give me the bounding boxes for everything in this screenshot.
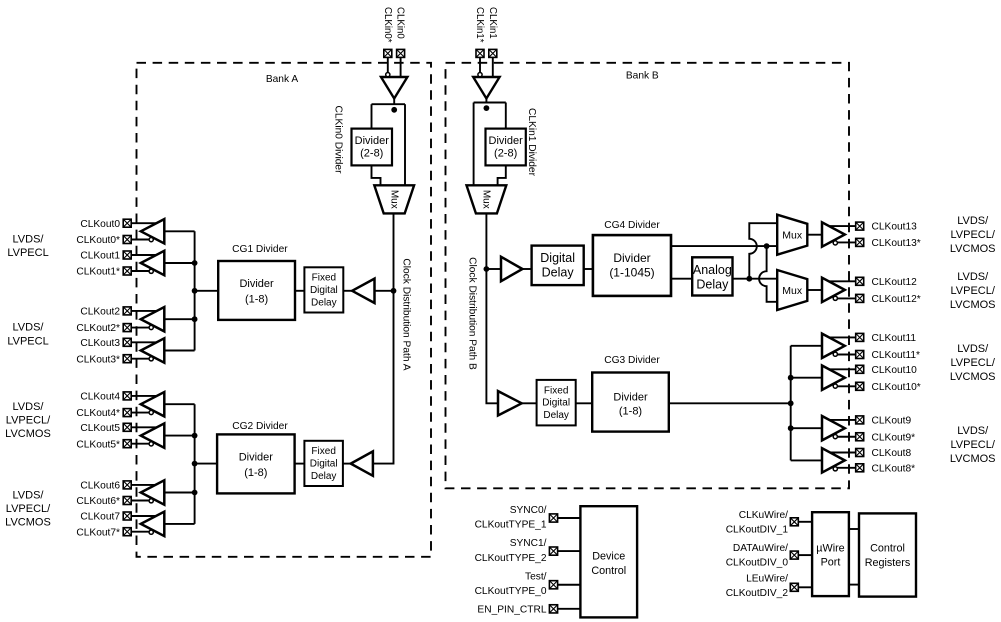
wire buffer to pin CLKout8* bbox=[835, 467, 855, 469]
wire bus Bank A CG2 outputs bbox=[194, 404, 196, 524]
wire pin CLKout0 to buffer bbox=[132, 222, 159, 224]
svg-text:CLKout0: CLKout0 bbox=[80, 219, 120, 230]
wire analog delay to muxes bbox=[733, 278, 778, 280]
pin CLKout5* bbox=[123, 440, 131, 448]
svg-text:CLKin0: CLKin0 bbox=[395, 7, 406, 39]
svg-text:Fixed: Fixed bbox=[312, 273, 336, 284]
inversion bubble CLKout6* bbox=[149, 499, 153, 503]
wire buffer to pin CLKout12* bbox=[835, 297, 855, 299]
pin CLKin1 bbox=[489, 49, 497, 57]
wire pin CLKout0* to buffer bbox=[132, 239, 152, 241]
svg-text:CLKout4*: CLKout4* bbox=[76, 408, 120, 419]
svg-text:LVDS/: LVDS/ bbox=[957, 343, 989, 355]
wire CLKin0* pin to buffer bubble bbox=[387, 58, 389, 73]
wire CG3 FDD to divider bbox=[576, 402, 593, 404]
svg-text:Mux: Mux bbox=[782, 285, 803, 297]
wire CLKin1 direct branch bbox=[473, 103, 475, 186]
inversion bubble CLKout13* bbox=[833, 241, 837, 245]
Device Control box bbox=[580, 506, 637, 617]
output buffer CLKout4/4* bbox=[141, 392, 165, 416]
pin CLKout3* bbox=[123, 355, 131, 363]
pin CLKout11 bbox=[856, 333, 864, 341]
svg-text:Delay: Delay bbox=[542, 265, 575, 279]
pin CLKout11* bbox=[856, 351, 864, 359]
svg-text:LVDS/: LVDS/ bbox=[957, 215, 989, 227]
pin CLKout13 bbox=[856, 222, 864, 230]
wire CLKin1 divider branch bbox=[505, 103, 507, 129]
svg-text:Delay: Delay bbox=[696, 278, 729, 292]
pin CLKin1* bbox=[476, 49, 484, 57]
svg-text:CLKout3*: CLKout3* bbox=[76, 354, 120, 365]
wire CLKin1 divider to mux bbox=[498, 165, 506, 186]
mux CLKin0 bbox=[374, 185, 414, 213]
svg-text:CLKin0 Divider: CLKin0 Divider bbox=[333, 106, 344, 175]
pin CLKout4* bbox=[123, 409, 131, 417]
inversion bubble CLKout10* bbox=[833, 384, 837, 388]
inversion bubble CLKout4* bbox=[149, 410, 153, 414]
inversion bubble CLKout8* bbox=[833, 467, 837, 471]
pin CLKout5 bbox=[123, 423, 131, 431]
input buffer CLKin0 bbox=[381, 77, 407, 99]
svg-text:CLKout10: CLKout10 bbox=[872, 365, 918, 376]
svg-text:Divider: Divider bbox=[613, 391, 648, 403]
svg-text:(1-8): (1-8) bbox=[245, 293, 268, 305]
svg-text:LVPECL/: LVPECL/ bbox=[6, 503, 51, 515]
wire CG3 divider output to bus bbox=[669, 402, 791, 404]
wire buffer input from bus y=523.9 bbox=[164, 523, 194, 525]
wire CG2 divider output to bus bbox=[195, 463, 218, 465]
wire CG1 tap from Path A bbox=[375, 290, 394, 292]
wire direct signal jumper to lower mux (hop over delayed line) bbox=[759, 246, 777, 302]
svg-text:LVPECL/: LVPECL/ bbox=[6, 415, 51, 427]
svg-text:Digital: Digital bbox=[310, 459, 338, 470]
svg-text:CLKout2*: CLKout2* bbox=[76, 323, 120, 334]
svg-text:LVCMOS: LVCMOS bbox=[950, 299, 996, 311]
output buffer CLKout0/0* bbox=[141, 219, 165, 243]
svg-text:CLKout1*: CLKout1* bbox=[76, 267, 120, 278]
svg-text:CLKout8: CLKout8 bbox=[872, 448, 912, 459]
Bank A dashed boundary bbox=[137, 63, 432, 557]
wire pin CLKout2* to buffer bbox=[132, 327, 152, 329]
junction bus/buffer CLKout6 bbox=[192, 490, 198, 496]
svg-text:Divider: Divider bbox=[239, 451, 274, 463]
wire CG4 digital delay to divider bbox=[584, 268, 593, 270]
junction CLKin0 split bbox=[391, 107, 397, 113]
Bank B dashed boundary bbox=[446, 63, 850, 489]
svg-text:SYNC1/: SYNC1/ bbox=[510, 538, 547, 549]
CG1 fixed digital delay box bbox=[304, 267, 343, 312]
wire buffer input from bus y=231.3 bbox=[164, 230, 194, 232]
wire bus to buffer CLKout11 bbox=[791, 345, 822, 347]
pin CLKout1 bbox=[123, 251, 131, 259]
svg-text:LVPECL/: LVPECL/ bbox=[950, 285, 995, 297]
wire buffer input from bus y=350.5 bbox=[164, 350, 194, 352]
pin SYNC1/CLKoutTYPE_2 bbox=[549, 547, 557, 555]
CG4 input buffer bbox=[501, 257, 522, 281]
svg-text:CLKoutTYPE_2: CLKoutTYPE_2 bbox=[475, 553, 547, 564]
svg-text:Device: Device bbox=[592, 550, 625, 562]
wire CG2 buffer to FDD bbox=[343, 463, 351, 465]
pin LEuWire/CLKoutDIV_2 bbox=[790, 583, 798, 591]
pin CLKin0* bbox=[384, 49, 392, 57]
divider (2-8) box CLKin1 bbox=[486, 129, 526, 166]
svg-text:Test/: Test/ bbox=[525, 571, 547, 582]
output buffer CLKout1/1* bbox=[141, 251, 165, 275]
output buffer CLKout6/6* bbox=[141, 480, 165, 504]
svg-text:Mux: Mux bbox=[388, 190, 399, 209]
pin CLKout12 bbox=[856, 277, 864, 285]
svg-text:Clock Distribution Path B: Clock Distribution Path B bbox=[467, 257, 478, 370]
wire pin CLKout2 to buffer bbox=[132, 310, 159, 312]
wire pin CLKout1 to buffer bbox=[132, 254, 159, 256]
CG1 divider box bbox=[218, 261, 295, 320]
svg-text:LVPECL: LVPECL bbox=[7, 335, 48, 347]
svg-text:EN_PIN_CTRL: EN_PIN_CTRL bbox=[477, 604, 546, 615]
wire buffer to pin CLKout10* bbox=[835, 385, 855, 387]
junction Path B / CG4 bbox=[484, 266, 490, 272]
svg-text:Analog: Analog bbox=[693, 263, 732, 277]
output buffer CLKout10/CLKout10* bbox=[822, 366, 845, 390]
svg-text:Digital: Digital bbox=[540, 251, 575, 265]
junction bus/buffer CLKout10 bbox=[788, 375, 794, 381]
pin CLKout2 bbox=[123, 307, 131, 315]
svg-text:LVDS/: LVDS/ bbox=[957, 271, 989, 283]
svg-text:Delay: Delay bbox=[311, 298, 337, 309]
svg-text:CLKout9*: CLKout9* bbox=[872, 432, 916, 443]
svg-text:CLKoutDIV_1: CLKoutDIV_1 bbox=[726, 525, 789, 536]
mux CLKin1 bbox=[467, 185, 507, 213]
svg-text:Registers: Registers bbox=[865, 557, 911, 569]
wire buffer input from bus y=435.6 bbox=[164, 435, 194, 437]
inversion bubble CLKout12* bbox=[833, 296, 837, 300]
svg-text:CLKout11: CLKout11 bbox=[872, 333, 917, 344]
junction bus/CG1 divider line bbox=[192, 288, 198, 294]
CG2 divider box bbox=[217, 434, 295, 493]
wire Clock Distribution Path A bbox=[373, 213, 394, 463]
wire pin CLKout6 to buffer bbox=[132, 484, 159, 486]
pin CLKout7* bbox=[123, 528, 131, 536]
pin CLKout7 bbox=[123, 512, 131, 520]
pin DATAuWire/CLKoutDIV_0 bbox=[790, 551, 798, 559]
svg-text:(2-8): (2-8) bbox=[360, 148, 383, 160]
svg-text:LVDS/: LVDS/ bbox=[13, 490, 45, 502]
svg-text:CG2 Divider: CG2 Divider bbox=[232, 421, 288, 432]
svg-text:CLKout2: CLKout2 bbox=[80, 306, 120, 317]
junction bus/CG3 line bbox=[788, 400, 794, 406]
mux CLKout13 bbox=[777, 215, 807, 255]
wire CLKin0 pin to buffer bbox=[400, 58, 402, 77]
svg-text:CLKout11*: CLKout11* bbox=[872, 350, 921, 361]
svg-text:Mux: Mux bbox=[481, 190, 492, 209]
svg-text:CLKout12: CLKout12 bbox=[872, 277, 918, 288]
svg-text:Delay: Delay bbox=[311, 471, 337, 482]
analog delay box bbox=[692, 257, 732, 295]
wire buffer input from bus y=404.2 bbox=[164, 403, 194, 405]
divider (2-8) box CLKin0 bbox=[352, 129, 393, 166]
wire pin SYNC1/ to Device Control bbox=[558, 550, 581, 552]
svg-text:CLKin1: CLKin1 bbox=[487, 7, 498, 39]
svg-text:CLKin0*: CLKin0* bbox=[382, 7, 393, 43]
wire CG4 tap from Path B bbox=[486, 268, 501, 270]
wire pin CLKout3* to buffer bbox=[132, 358, 152, 360]
svg-text:LVDS/: LVDS/ bbox=[13, 401, 45, 413]
svg-text:Fixed: Fixed bbox=[311, 446, 335, 457]
wire pin CLKout1* to buffer bbox=[132, 270, 152, 272]
junction Path A / CG1 bbox=[391, 288, 397, 294]
wire buffer to pin CLKout10 bbox=[828, 368, 856, 370]
wire buffer CLKin1 output bbox=[485, 99, 487, 103]
pin Test/CLKoutTYPE_0 bbox=[549, 581, 557, 589]
wire lower mux to buffer CLKout12 bbox=[807, 289, 822, 291]
svg-text:LVDS/: LVDS/ bbox=[957, 425, 989, 437]
wire pin CLKout7 to buffer bbox=[132, 515, 159, 517]
svg-text:CLKoutDIV_2: CLKoutDIV_2 bbox=[726, 588, 789, 599]
inversion bubble on CLKin1* input bbox=[478, 73, 482, 77]
svg-text:CLKout0*: CLKout0* bbox=[76, 235, 120, 246]
svg-text:CLKout6*: CLKout6* bbox=[76, 496, 120, 507]
junction bus/buffer CLKout9 bbox=[788, 425, 794, 431]
wire buffer CLKin0 output bbox=[393, 99, 395, 105]
svg-text:LVPECL: LVPECL bbox=[7, 247, 48, 259]
mux CLKout12 bbox=[777, 270, 807, 310]
pin CLKin0 bbox=[397, 49, 405, 57]
output buffer CLKout11/CLKout11* bbox=[822, 334, 845, 358]
pin CLKout4 bbox=[123, 392, 131, 400]
wire bus Bank A CG1 outputs bbox=[194, 231, 196, 350]
inversion bubble CLKout11* bbox=[833, 352, 837, 356]
wire CLKin0 direct branch bbox=[404, 104, 406, 185]
CG3 divider box bbox=[592, 373, 669, 432]
wire buffer to pin CLKout13 bbox=[828, 225, 856, 227]
inversion bubble CLKout2* bbox=[149, 325, 153, 329]
junction direct output split bbox=[764, 243, 770, 249]
wire CLKin0 divider branch bbox=[371, 104, 373, 128]
junction bus/buffer CLKout2 bbox=[192, 316, 198, 322]
wire buffer input from bus y=319.2 bbox=[164, 318, 194, 320]
wire pin Test/ to Device Control bbox=[558, 584, 581, 586]
svg-text:LVCMOS: LVCMOS bbox=[5, 517, 51, 529]
CG3 fixed digital delay box bbox=[537, 380, 576, 426]
pin CLKout2* bbox=[123, 324, 131, 332]
svg-text:Digital: Digital bbox=[542, 398, 570, 409]
wire uWire Port to Control Registers lower bbox=[849, 584, 859, 586]
wire buffer to pin CLKout12 bbox=[828, 280, 856, 282]
svg-text:Bank A: Bank A bbox=[266, 74, 298, 85]
wire CG2 FDD to divider bbox=[295, 463, 305, 465]
svg-text:CLKout7: CLKout7 bbox=[80, 512, 120, 523]
output buffer CLKout5/5* bbox=[141, 423, 165, 447]
svg-text:CLKout13: CLKout13 bbox=[872, 222, 918, 233]
svg-text:Divider: Divider bbox=[613, 251, 650, 265]
wire buffer to pin CLKout13* bbox=[835, 241, 855, 243]
wire pin CLKout5 to buffer bbox=[132, 426, 159, 428]
junction delayed output split bbox=[746, 276, 752, 282]
wire buffer input from bus y=263.0 bbox=[164, 262, 194, 264]
svg-text:Fixed: Fixed bbox=[544, 385, 568, 396]
wire CG4 buffer to digital delay bbox=[522, 268, 531, 270]
pin CLKout13* bbox=[856, 238, 864, 246]
output buffer CLKout7/7* bbox=[141, 512, 165, 536]
inversion bubble CLKout3* bbox=[149, 357, 153, 361]
svg-text:LVCMOS: LVCMOS bbox=[950, 243, 996, 255]
inversion bubble CLKout5* bbox=[149, 442, 153, 446]
wire pin LEuWire/ to uWire Port bbox=[798, 586, 812, 588]
wire CG1 buffer to FDD bbox=[343, 290, 352, 292]
wire CLKin1* pin to buffer bubble bbox=[479, 58, 481, 73]
wire pin CLKout6* to buffer bbox=[132, 500, 152, 502]
svg-text:CG4 Divider: CG4 Divider bbox=[604, 220, 660, 231]
wire Clock Distribution Path B bbox=[486, 213, 498, 403]
wire CG3 buffer to FDD bbox=[522, 402, 537, 404]
pin CLKuWire/CLKoutDIV_1 bbox=[790, 518, 798, 526]
svg-text:Divider: Divider bbox=[355, 135, 390, 147]
output buffer CLKout3/3* bbox=[141, 338, 165, 362]
CG3 input buffer bbox=[498, 391, 522, 415]
wire bus CG3 outputs bbox=[790, 346, 792, 461]
CG4 digital delay box bbox=[532, 246, 584, 286]
svg-text:LVDS/: LVDS/ bbox=[13, 233, 45, 245]
wire bus to buffer CLKout10 bbox=[791, 377, 822, 379]
svg-text:Control: Control bbox=[591, 565, 626, 577]
svg-text:CLKoutDIV_0: CLKoutDIV_0 bbox=[726, 557, 789, 568]
svg-text:CLKout5: CLKout5 bbox=[80, 423, 120, 434]
wire pin CLKout4* to buffer bbox=[132, 412, 152, 414]
svg-text:(1-1045): (1-1045) bbox=[609, 265, 654, 279]
svg-text:Divider: Divider bbox=[239, 278, 274, 290]
uWire Port box bbox=[812, 512, 849, 596]
pin CLKout9* bbox=[856, 433, 864, 441]
svg-text:CLKout8*: CLKout8* bbox=[872, 463, 916, 474]
junction bus/buffer CLKout1 bbox=[192, 260, 198, 266]
wire pin DATAuWire/ to uWire Port bbox=[798, 554, 812, 556]
inversion bubble CLKout1* bbox=[149, 269, 153, 273]
svg-text:CLKout5*: CLKout5* bbox=[76, 439, 120, 450]
svg-text:LVPECL/: LVPECL/ bbox=[950, 357, 995, 369]
wire CG1 FDD to divider bbox=[295, 290, 304, 292]
wire buffer input from bus y=492.5 bbox=[164, 492, 194, 494]
svg-text:Divider: Divider bbox=[489, 135, 524, 147]
svg-text:DATAuWire/: DATAuWire/ bbox=[733, 543, 788, 554]
wire pin SYNC0/ to Device Control bbox=[558, 517, 581, 519]
svg-text:CLKout7*: CLKout7* bbox=[76, 527, 120, 538]
wire bus to buffer CLKout9 bbox=[791, 427, 822, 429]
input buffer CLKin1 bbox=[473, 77, 499, 99]
svg-text:Clock Distribution Path A: Clock Distribution Path A bbox=[401, 258, 412, 370]
wire buffer to pin CLKout8 bbox=[828, 452, 856, 454]
wire delayed signal jumper to upper mux (hop over direct line) bbox=[749, 223, 777, 279]
pin CLKout8 bbox=[856, 449, 864, 457]
pin EN_PIN_CTRL bbox=[549, 605, 557, 613]
svg-text:CLKin1*: CLKin1* bbox=[474, 7, 485, 43]
wire pin CLKuWire/ to uWire Port bbox=[798, 521, 812, 523]
wire upper mux to buffer CLKout13 bbox=[807, 234, 822, 236]
svg-text:LVDS/: LVDS/ bbox=[13, 322, 45, 334]
svg-text:SYNC0/: SYNC0/ bbox=[510, 505, 547, 516]
svg-text:CLKout4: CLKout4 bbox=[80, 391, 120, 402]
svg-text:CLKout1: CLKout1 bbox=[80, 251, 120, 262]
svg-text:CLKout3: CLKout3 bbox=[80, 338, 120, 349]
wire CLKin0 divider to mux bbox=[372, 165, 381, 186]
output buffer CLKout2/2* bbox=[141, 307, 165, 331]
svg-text:Delay: Delay bbox=[543, 410, 569, 421]
pin CLKout8* bbox=[856, 464, 864, 472]
svg-text:CLKout13*: CLKout13* bbox=[872, 238, 921, 249]
svg-text:CLKout10*: CLKout10* bbox=[872, 382, 921, 393]
svg-text:(2-8): (2-8) bbox=[494, 148, 517, 160]
svg-text:LVCMOS: LVCMOS bbox=[950, 371, 996, 383]
CG2 fixed digital delay box bbox=[304, 441, 343, 486]
wire buffer to pin CLKout9* bbox=[835, 436, 855, 438]
svg-text:Control: Control bbox=[870, 543, 905, 555]
svg-text:CLKout12*: CLKout12* bbox=[872, 294, 921, 305]
pin SYNC0/CLKoutTYPE_1 bbox=[549, 514, 557, 522]
junction bus/buffer CLKout5 bbox=[192, 433, 198, 439]
pin CLKout0 bbox=[123, 219, 131, 227]
wire pin CLKout7* to buffer bbox=[132, 531, 152, 533]
wire pin CLKout5* to buffer bbox=[132, 443, 152, 445]
svg-text:Digital: Digital bbox=[310, 285, 338, 296]
junction bus/CG2 divider line bbox=[192, 461, 198, 467]
wire CG4 divider direct output to muxes bbox=[671, 245, 777, 247]
svg-text:CLKoutTYPE_0: CLKoutTYPE_0 bbox=[475, 586, 547, 597]
wire uWire Port to Control Registers upper bbox=[849, 528, 859, 530]
wire pin EN_PIN_CTRL to Device Control bbox=[558, 608, 581, 610]
pin CLKout3 bbox=[123, 338, 131, 346]
svg-text:(1-8): (1-8) bbox=[244, 467, 267, 479]
wire split top CLKin1 bbox=[474, 102, 506, 104]
Control Registers box bbox=[859, 513, 916, 596]
svg-text:LVCMOS: LVCMOS bbox=[950, 453, 996, 465]
CG2 input buffer bbox=[351, 451, 373, 475]
wire buffer to pin CLKout11* bbox=[835, 354, 855, 356]
wire split top CLKin0 bbox=[372, 103, 406, 105]
wire buffer to pin CLKout11 bbox=[828, 336, 856, 338]
output buffer CLKout12/CLKout12* bbox=[822, 278, 845, 302]
inversion bubble CLKout0* bbox=[149, 238, 153, 242]
svg-text:µWire: µWire bbox=[816, 543, 844, 555]
pin CLKout10* bbox=[856, 382, 864, 390]
pin CLKout9 bbox=[856, 416, 864, 424]
CG1 input buffer bbox=[352, 279, 374, 303]
pin CLKout6* bbox=[123, 497, 131, 505]
svg-text:CG3 Divider: CG3 Divider bbox=[604, 355, 660, 366]
inversion bubble CLKout7* bbox=[149, 530, 153, 534]
output buffer CLKout9/CLKout9* bbox=[822, 416, 845, 440]
pin CLKout12* bbox=[856, 294, 864, 302]
output buffer CLKout13/CLKout13* bbox=[822, 222, 845, 246]
svg-text:CG1 Divider: CG1 Divider bbox=[232, 244, 288, 255]
wire bus to buffer CLKout8 bbox=[791, 459, 822, 461]
wire CG1 divider output to bus bbox=[195, 290, 219, 292]
svg-text:LVPECL/: LVPECL/ bbox=[950, 439, 995, 451]
svg-text:CLKout6: CLKout6 bbox=[80, 480, 120, 491]
wire pin CLKout3 to buffer bbox=[132, 341, 159, 343]
pin CLKout10 bbox=[856, 365, 864, 373]
inversion bubble on CLKin0* input bbox=[386, 73, 390, 77]
pin CLKout1* bbox=[123, 267, 131, 275]
svg-text:LEuWire/: LEuWire/ bbox=[746, 573, 788, 584]
wire CG4 divider delayed output bbox=[671, 278, 692, 280]
svg-text:Mux: Mux bbox=[782, 230, 803, 242]
pin CLKout6 bbox=[123, 481, 131, 489]
svg-text:CLKuWire/: CLKuWire/ bbox=[739, 510, 788, 521]
svg-text:CLKoutTYPE_1: CLKoutTYPE_1 bbox=[475, 519, 547, 530]
svg-text:(1-8): (1-8) bbox=[619, 406, 642, 418]
pin CLKout0* bbox=[123, 236, 131, 244]
wire buffer to pin CLKout9 bbox=[828, 419, 856, 421]
svg-text:Port: Port bbox=[821, 557, 841, 569]
CG4 divider box bbox=[593, 235, 671, 296]
